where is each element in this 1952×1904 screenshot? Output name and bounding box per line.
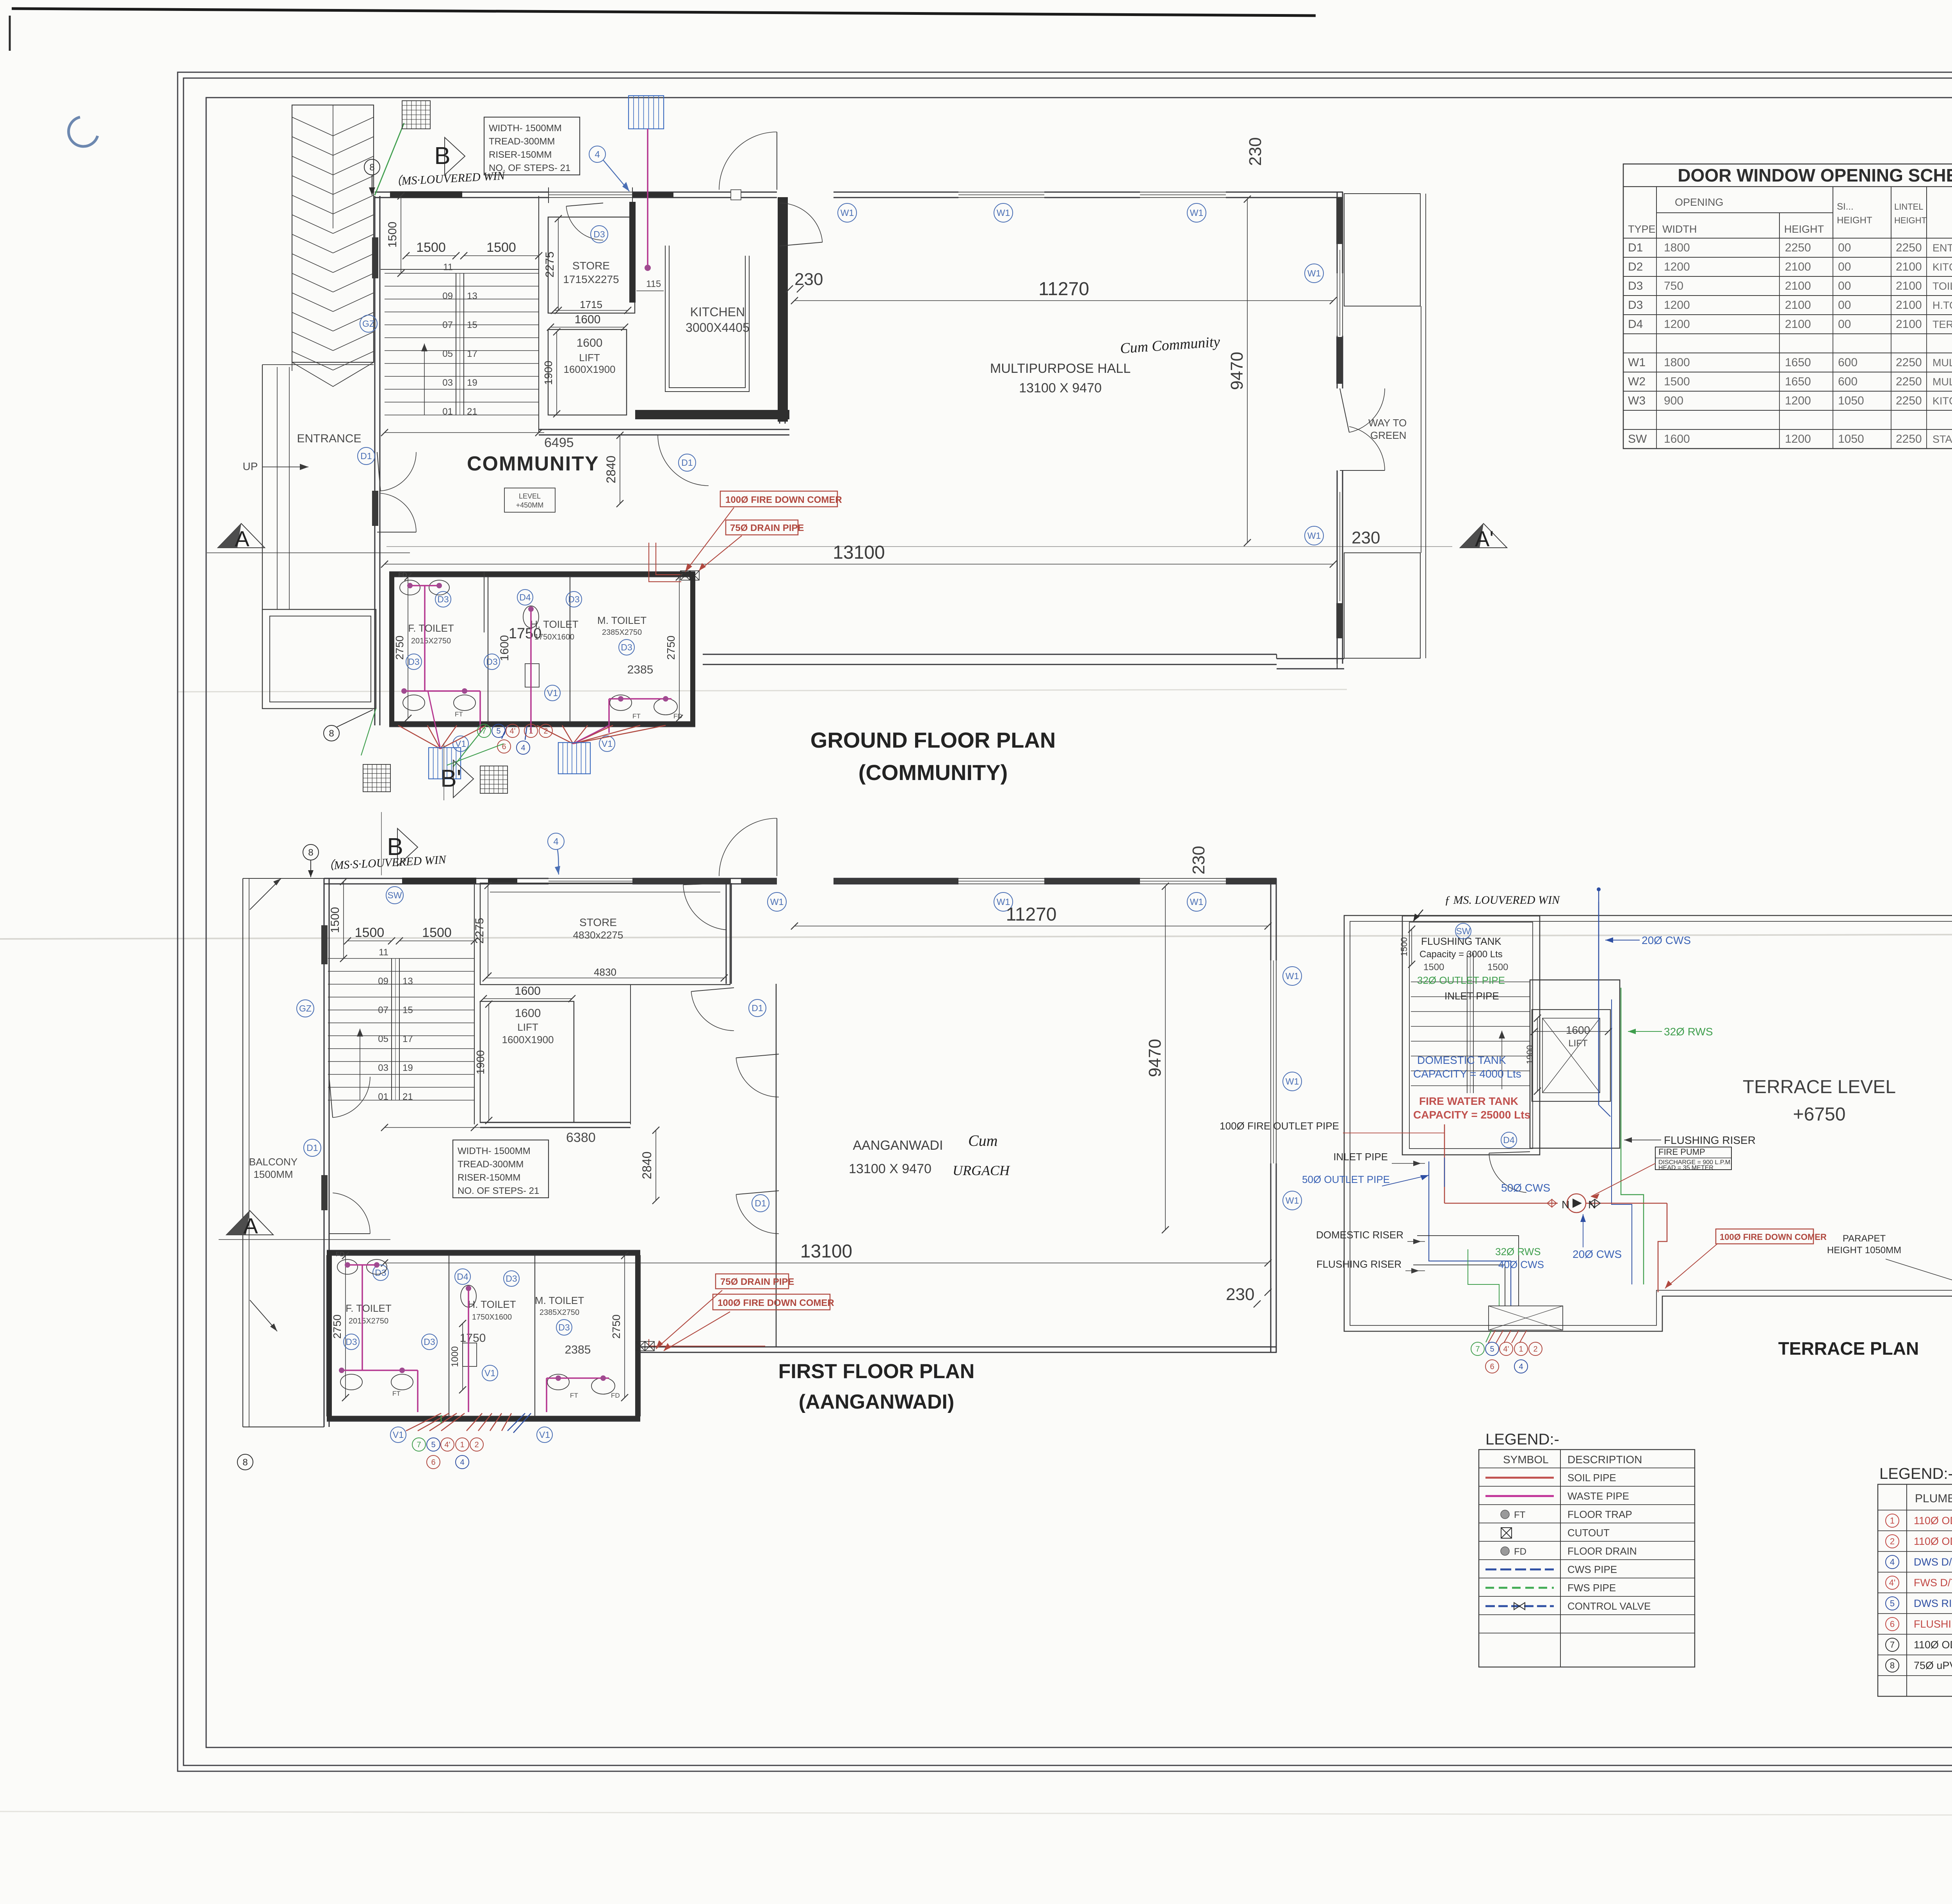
- svg-text:9470: 9470: [1227, 352, 1247, 390]
- svg-text:+450MM: +450MM: [516, 501, 544, 509]
- svg-text:4: 4: [460, 1458, 464, 1467]
- svg-text:1600: 1600: [498, 635, 511, 661]
- svg-text:URGACH: URGACH: [953, 1163, 1010, 1178]
- svg-text:W1: W1: [997, 208, 1010, 218]
- svg-text:(AANGANWADI): (AANGANWADI): [799, 1391, 955, 1413]
- svg-text:13100 X 9470: 13100 X 9470: [849, 1161, 931, 1176]
- svg-text:13100 X 9470: 13100 X 9470: [1019, 381, 1102, 395]
- svg-text:LEGEND:-: LEGEND:-: [1879, 1465, 1952, 1482]
- svg-text:A: A: [235, 526, 249, 551]
- svg-text:FLUSHING RISER: FLUSHING RISER: [1914, 1618, 1952, 1630]
- red fire labels: [720, 491, 837, 507]
- svg-text:D4: D4: [1503, 1135, 1515, 1145]
- svg-text:1500: 1500: [486, 240, 516, 255]
- svg-text:5: 5: [1490, 1345, 1494, 1354]
- svg-text:8: 8: [308, 847, 313, 858]
- blue leader top: [1598, 890, 1599, 902]
- svg-text:1500: 1500: [1487, 962, 1508, 972]
- svg-text:4': 4': [510, 727, 516, 736]
- svg-text:RISER-150MM: RISER-150MM: [458, 1172, 520, 1183]
- svg-text:2: 2: [1890, 1537, 1895, 1546]
- svg-text:1800: 1800: [1664, 356, 1690, 369]
- svg-text:FLUSHING RISER: FLUSHING RISER: [1316, 1258, 1402, 1270]
- svg-text:1200: 1200: [1664, 299, 1690, 312]
- svg-text:750: 750: [1664, 280, 1683, 292]
- svg-text:D4: D4: [457, 1272, 468, 1282]
- content frame: [206, 98, 1952, 1747]
- svg-text:WIDTH: WIDTH: [1662, 223, 1697, 235]
- svg-text:4: 4: [595, 149, 600, 160]
- svg-text:1750: 1750: [460, 1332, 486, 1345]
- svg-text:1750X1600: 1750X1600: [472, 1313, 512, 1322]
- store room: [548, 217, 635, 313]
- svg-text:7: 7: [482, 727, 486, 736]
- svg-text:FD: FD: [398, 571, 407, 579]
- top-left grid box + label 8: [402, 101, 430, 129]
- svg-text:SW: SW: [1456, 926, 1470, 936]
- svg-text:W1: W1: [770, 897, 784, 907]
- svg-text:GZ: GZ: [362, 319, 375, 329]
- svg-text:UP: UP: [243, 460, 258, 472]
- svg-text:03: 03: [442, 378, 453, 388]
- svg-text:11270: 11270: [1038, 279, 1089, 299]
- svg-text:1: 1: [460, 1441, 464, 1449]
- green vent lines: [447, 744, 504, 765]
- svg-text:F. TOILET: F. TOILET: [346, 1302, 392, 1314]
- svg-text:17: 17: [467, 349, 477, 359]
- magenta waste pipes: [410, 585, 439, 586]
- ff lift: [480, 1001, 574, 1122]
- svg-text:FWS D/TAKE: FWS D/TAKE: [1914, 1577, 1952, 1589]
- svg-text:230: 230: [1226, 1285, 1254, 1304]
- svg-text:00: 00: [1838, 299, 1851, 312]
- svg-text:6380: 6380: [566, 1130, 596, 1145]
- stair dims: [401, 196, 401, 273]
- svg-text:2: 2: [1533, 1345, 1537, 1354]
- svg-text:SOIL PIPE: SOIL PIPE: [1567, 1472, 1616, 1484]
- svg-text:BALCONY: BALCONY: [249, 1156, 297, 1168]
- svg-text:FLOOR TRAP: FLOOR TRAP: [1567, 1509, 1632, 1520]
- svg-text:1500: 1500: [1399, 937, 1409, 956]
- svg-text:FD: FD: [611, 1392, 620, 1399]
- svg-text:2250: 2250: [1785, 241, 1811, 254]
- svg-text:1650: 1650: [1785, 356, 1811, 369]
- svg-text:3000X4405: 3000X4405: [686, 321, 750, 335]
- svg-text:SYMBOL: SYMBOL: [1503, 1453, 1549, 1466]
- svg-text:2015X2750: 2015X2750: [349, 1317, 388, 1325]
- svg-text:230: 230: [794, 270, 823, 289]
- svg-text:19: 19: [403, 1063, 413, 1073]
- svg-text:W1: W1: [1286, 1195, 1299, 1206]
- svg-text:TERRACE PLAN: TERRACE PLAN: [1778, 1338, 1919, 1359]
- svg-text:7: 7: [1890, 1640, 1895, 1650]
- svg-text:FT: FT: [570, 1392, 578, 1399]
- svg-text:HEIGHT: HEIGHT: [1784, 223, 1824, 235]
- svg-text:D3: D3: [486, 657, 497, 667]
- circled 4 with leader: [589, 146, 606, 162]
- svg-text:230: 230: [1352, 528, 1380, 547]
- svg-text:D3: D3: [408, 657, 419, 667]
- svg-text:20Ø CWS: 20Ø CWS: [1642, 934, 1691, 946]
- svg-text:FLUSHING RISER: FLUSHING RISER: [1664, 1134, 1756, 1146]
- svg-text:09: 09: [442, 291, 453, 301]
- circled 8 + handwriting ff: [237, 1454, 253, 1470]
- svg-text:FT: FT: [632, 712, 641, 720]
- section marker A-prime: [1460, 524, 1507, 548]
- svg-text:6: 6: [431, 1458, 435, 1467]
- svg-text:7: 7: [417, 1441, 421, 1449]
- svg-text:V1: V1: [484, 1368, 495, 1378]
- svg-text:LINTEL: LINTEL: [1894, 202, 1924, 212]
- stair data box: [484, 117, 580, 175]
- svg-text:D3: D3: [558, 1322, 570, 1332]
- svg-text:2015X2750: 2015X2750: [411, 637, 451, 645]
- svg-text:32Ø RWS: 32Ø RWS: [1495, 1246, 1541, 1257]
- svg-text:100Ø FIRE DOWN COMER: 100Ø FIRE DOWN COMER: [725, 495, 842, 505]
- svg-text:DESCRIPTION: DESCRIPTION: [1567, 1453, 1642, 1466]
- svg-text:DWS RISER: DWS RISER: [1914, 1598, 1952, 1609]
- ff store: [480, 883, 730, 985]
- svg-text:4830: 4830: [594, 966, 616, 978]
- svg-text:1200: 1200: [1664, 260, 1690, 273]
- svg-text:TREAD-300MM: TREAD-300MM: [489, 136, 555, 147]
- svg-text:OPENING: OPENING: [1675, 196, 1724, 208]
- svg-text:TREAD-300MM: TREAD-300MM: [458, 1159, 524, 1170]
- blue hatch box top + magenta drop: [629, 96, 664, 129]
- terrace plan outline (parapet): [1344, 915, 1952, 1331]
- svg-text:600: 600: [1838, 375, 1858, 388]
- svg-text:07: 07: [442, 320, 453, 330]
- terrace lift tower: [1530, 980, 1620, 1148]
- svg-text:ENTRY: ENTRY: [1932, 242, 1952, 254]
- svg-text:LIFT: LIFT: [579, 352, 600, 363]
- svg-text:230: 230: [1246, 137, 1265, 166]
- svg-text:LEVEL: LEVEL: [519, 492, 541, 500]
- svg-text:00: 00: [1838, 318, 1851, 331]
- way to green doors: [1349, 388, 1385, 432]
- svg-text:8: 8: [242, 1457, 248, 1468]
- svg-text:2: 2: [543, 727, 548, 736]
- lift: [548, 330, 627, 415]
- svg-text:TERRACE LEVEL: TERRACE LEVEL: [1743, 1077, 1896, 1097]
- svg-text:GREEN: GREEN: [1370, 429, 1406, 441]
- svg-text:M. TOILET: M. TOILET: [597, 614, 647, 626]
- svg-text:100Ø FIRE OUTLET PIPE: 100Ø FIRE OUTLET PIPE: [1220, 1120, 1339, 1132]
- ff right wall: [1270, 878, 1272, 960]
- svg-text:1500: 1500: [416, 240, 446, 255]
- svg-text:V1: V1: [539, 1430, 550, 1440]
- svg-text:2250: 2250: [1896, 356, 1922, 369]
- svg-text:01: 01: [378, 1092, 388, 1102]
- svg-text:05: 05: [378, 1034, 388, 1044]
- svg-text:D1: D1: [681, 458, 693, 468]
- svg-text:4': 4': [445, 1441, 451, 1449]
- svg-text:SW: SW: [387, 890, 402, 900]
- svg-text:8: 8: [329, 728, 334, 739]
- svg-text:FWS PIPE: FWS PIPE: [1567, 1582, 1616, 1594]
- svg-text:1500: 1500: [329, 907, 342, 933]
- top wall with windows: [375, 192, 549, 193]
- svg-text:D3: D3: [375, 1268, 386, 1278]
- svg-text:LIFT: LIFT: [517, 1021, 538, 1033]
- svg-text:HEIGHT 1050MM: HEIGHT 1050MM: [1827, 1245, 1901, 1256]
- svg-text:TOILET: TOILET: [1932, 280, 1952, 292]
- svg-text:2385: 2385: [627, 663, 654, 676]
- svg-text:AANGANWADI: AANGANWADI: [853, 1138, 943, 1153]
- svg-text:1500: 1500: [386, 222, 399, 248]
- svg-text:2250: 2250: [1896, 433, 1922, 445]
- svg-text:HEAD = 35 METER: HEAD = 35 METER: [1658, 1165, 1713, 1171]
- balcony left strip: [242, 878, 243, 1427]
- svg-text:2250: 2250: [1896, 394, 1922, 407]
- svg-text:1900: 1900: [542, 361, 554, 385]
- svg-text:11270: 11270: [1006, 904, 1057, 925]
- svg-text:11: 11: [443, 262, 453, 273]
- svg-text:WIDTH- 1500MM: WIDTH- 1500MM: [489, 123, 562, 134]
- svg-text:5: 5: [431, 1441, 435, 1449]
- svg-text:D4: D4: [1628, 318, 1643, 331]
- svg-text:D1: D1: [755, 1198, 766, 1208]
- svg-text:5: 5: [1890, 1599, 1895, 1608]
- svg-text:600: 600: [1838, 356, 1858, 369]
- pipe bundle exit box: [1489, 1306, 1563, 1330]
- svg-text:W1: W1: [1628, 356, 1646, 369]
- svg-text:4: 4: [1519, 1363, 1523, 1371]
- svg-text:6: 6: [1490, 1363, 1494, 1371]
- svg-text:LEGEND:-: LEGEND:-: [1485, 1431, 1559, 1448]
- svg-text:2250: 2250: [1896, 375, 1922, 388]
- svg-text:STORE: STORE: [579, 916, 617, 928]
- svg-text:FD: FD: [336, 1250, 345, 1258]
- svg-text:WAY TO: WAY TO: [1368, 417, 1407, 429]
- svg-text:D1: D1: [752, 1003, 763, 1013]
- svg-text:N: N: [1588, 1199, 1596, 1211]
- GZ circle: [360, 315, 377, 332]
- svg-text:A: A: [243, 1213, 258, 1238]
- kitchen U counter: [665, 246, 749, 392]
- terrace circled numbers: [1471, 1342, 1484, 1355]
- svg-text:D3: D3: [506, 1273, 517, 1284]
- svg-text:1600: 1600: [577, 337, 603, 349]
- svg-text:2840: 2840: [604, 456, 618, 483]
- svg-text:15: 15: [467, 320, 477, 330]
- svg-text:A': A': [1475, 526, 1494, 551]
- svg-text:F. TOILET: F. TOILET: [408, 622, 454, 634]
- svg-text:1900: 1900: [1525, 1045, 1535, 1064]
- svg-text:900: 900: [1664, 394, 1683, 407]
- svg-text:D2: D2: [1628, 260, 1643, 273]
- svg-text:WIDTH- 1500MM: WIDTH- 1500MM: [458, 1146, 531, 1156]
- svg-text:13: 13: [403, 976, 413, 987]
- fire down comer red label: [1716, 1229, 1813, 1244]
- svg-text:MULTIPURPOSE HALL: MULTIPURPOSE HALL: [990, 361, 1131, 376]
- svg-text:2750: 2750: [331, 1314, 343, 1339]
- svg-text:(COMMUNITY): (COMMUNITY): [858, 760, 1008, 785]
- svg-text:2100: 2100: [1785, 280, 1811, 292]
- svg-text:1600: 1600: [575, 313, 601, 326]
- svg-text:2750: 2750: [665, 636, 677, 660]
- svg-text:2750: 2750: [610, 1314, 622, 1339]
- door window opening schedule table: [1623, 164, 1952, 449]
- terrace stairs: [1411, 981, 1530, 982]
- ff circled pipe numbers: [412, 1438, 426, 1451]
- ff left wall: [324, 878, 325, 1427]
- svg-text:1500: 1500: [1423, 962, 1444, 972]
- svg-text:1750: 1750: [509, 625, 542, 642]
- svg-text:50Ø OUTLET PIPE: 50Ø OUTLET PIPE: [1302, 1174, 1390, 1185]
- svg-text:4': 4': [1889, 1578, 1895, 1588]
- svg-text:M. TOILET: M. TOILET: [535, 1295, 584, 1306]
- svg-text:PARAPET: PARAPET: [1843, 1233, 1886, 1244]
- svg-text:TYPE: TYPE: [1628, 223, 1656, 235]
- svg-text:6: 6: [1890, 1619, 1895, 1629]
- svg-text:4': 4': [1503, 1345, 1509, 1354]
- svg-text:07: 07: [378, 1005, 388, 1015]
- svg-text:8: 8: [1890, 1661, 1895, 1671]
- fire pump spec box: [1655, 1147, 1731, 1170]
- svg-text:D3: D3: [1628, 280, 1643, 292]
- svg-text:PLUMBING LEGEND: PLUMBING LEGEND: [1915, 1492, 1952, 1505]
- svg-text:2100: 2100: [1896, 299, 1922, 312]
- svg-text:FT: FT: [392, 1390, 401, 1397]
- svg-text:4: 4: [521, 744, 525, 752]
- svg-text:KITCHEN: KITCHEN: [690, 305, 745, 319]
- svg-text:W1: W1: [1286, 1076, 1299, 1086]
- svg-text:1500MM: 1500MM: [253, 1168, 293, 1180]
- svg-text:DOMESTIC TANK: DOMESTIC TANK: [1417, 1054, 1506, 1066]
- svg-text:W2: W2: [1628, 375, 1646, 388]
- svg-text:100Ø FIRE DOWN COMER: 100Ø FIRE DOWN COMER: [718, 1298, 834, 1308]
- svg-text:HEIGHT: HEIGHT: [1894, 216, 1927, 225]
- svg-text:4: 4: [553, 836, 558, 847]
- ff toilets: [327, 1250, 640, 1251]
- svg-text:CWS PIPE: CWS PIPE: [1567, 1564, 1617, 1575]
- circled pipe numbers: [477, 724, 491, 737]
- svg-text:CAPACITY = 4000 Lts: CAPACITY = 4000 Lts: [1413, 1068, 1521, 1080]
- svg-text:1200: 1200: [1785, 433, 1811, 445]
- svg-text:19: 19: [467, 378, 477, 388]
- svg-text:110Ø OD uPVC R.W.P: 110Ø OD uPVC R.W.P: [1914, 1639, 1952, 1651]
- ff inner wall right of lift: [726, 883, 727, 984]
- B marker ff top: [548, 833, 564, 850]
- svg-text:2100: 2100: [1896, 260, 1922, 273]
- svg-text:CONTROL VALVE: CONTROL VALVE: [1567, 1600, 1651, 1612]
- svg-text:D3: D3: [1628, 299, 1643, 312]
- svg-text:FT: FT: [1514, 1510, 1526, 1520]
- svg-text:13100: 13100: [800, 1241, 852, 1262]
- svg-text:LIFT: LIFT: [1568, 1038, 1588, 1049]
- svg-text:1800: 1800: [1664, 241, 1690, 254]
- red drain outline near hall: [649, 543, 681, 582]
- svg-text:2100: 2100: [1785, 260, 1811, 273]
- scan artifacts top edge: [12, 9, 1316, 16]
- svg-text:6495: 6495: [544, 435, 574, 450]
- svg-text:V1: V1: [547, 688, 558, 698]
- svg-text:D3: D3: [593, 229, 605, 239]
- svg-text:8: 8: [369, 162, 374, 173]
- svg-text:2100: 2100: [1785, 318, 1811, 331]
- svg-text:DOOR WINDOW OPENING SCHEDULE: DOOR WINDOW OPENING SCHEDULE: [1678, 165, 1952, 185]
- svg-text:2250: 2250: [1896, 241, 1922, 254]
- blue/green risers bottom left of terrace: [1429, 1158, 1511, 1306]
- svg-text:00: 00: [1838, 241, 1851, 254]
- svg-text:2385X2750: 2385X2750: [540, 1308, 579, 1317]
- section A line across: [386, 546, 1452, 547]
- svg-text:1900: 1900: [474, 1050, 486, 1074]
- svg-text:RISER-150MM: RISER-150MM: [489, 150, 552, 160]
- svg-text:2385: 2385: [565, 1343, 591, 1356]
- svg-text:1715X2275: 1715X2275: [563, 273, 619, 285]
- svg-text:COMMUNITY: COMMUNITY: [467, 452, 599, 475]
- svg-text:+6750: +6750: [1793, 1104, 1846, 1125]
- svg-text:05: 05: [442, 349, 453, 359]
- svg-text:STAIRCASE: STAIRCASE: [1932, 433, 1952, 445]
- svg-text:INLET PIPE: INLET PIPE: [1444, 990, 1499, 1002]
- svg-text:DOMESTIC RISER: DOMESTIC RISER: [1316, 1229, 1403, 1241]
- fold lines: [0, 933, 1952, 939]
- entrance canopy chevron strip: [292, 105, 374, 362]
- svg-text:FT: FT: [455, 711, 463, 718]
- svg-text:115: 115: [646, 279, 661, 289]
- svg-text:32Ø OUTLET PIPE: 32Ø OUTLET PIPE: [1417, 974, 1505, 986]
- svg-text:2275: 2275: [543, 251, 556, 278]
- svg-text:FIRE PUMP: FIRE PUMP: [1658, 1147, 1705, 1157]
- svg-text:D3: D3: [346, 1337, 357, 1347]
- terrace pipe runs: [1598, 902, 1599, 1105]
- svg-text:HEIGHT: HEIGHT: [1837, 215, 1872, 226]
- svg-text:H. TOILET: H. TOILET: [468, 1298, 516, 1310]
- svg-text:Cum: Cum: [968, 1132, 998, 1149]
- tank room door: [1489, 1153, 1526, 1193]
- svg-text:1200: 1200: [1785, 394, 1811, 407]
- svg-text:1500: 1500: [1664, 375, 1690, 388]
- svg-text:50Ø CWS: 50Ø CWS: [1501, 1182, 1550, 1194]
- svg-text:1: 1: [529, 727, 533, 736]
- svg-text:CUTOUT: CUTOUT: [1567, 1527, 1610, 1539]
- svg-text:V1: V1: [602, 739, 613, 749]
- pipe risers fan to tanks: [398, 725, 440, 749]
- svg-text:09: 09: [378, 976, 388, 987]
- svg-text:D3: D3: [437, 594, 449, 604]
- toilets block ground floor: [389, 572, 695, 573]
- svg-text:15: 15: [403, 1005, 413, 1015]
- svg-text:ƒ MS. LOUVERED WIN: ƒ MS. LOUVERED WIN: [1444, 894, 1560, 907]
- svg-text:STORE: STORE: [572, 260, 610, 272]
- way to green corridor: [1344, 194, 1420, 306]
- svg-text:MULTI-PURPOSE HALL: MULTI-PURPOSE HALL: [1932, 357, 1952, 369]
- svg-text:5: 5: [496, 727, 500, 736]
- svg-text:01: 01: [442, 406, 453, 417]
- fire pump red line: [1444, 1124, 1445, 1203]
- svg-text:2100: 2100: [1896, 280, 1922, 292]
- ff stair data box: [453, 1140, 549, 1198]
- section A marker: [218, 524, 265, 548]
- svg-text:1600: 1600: [1566, 1024, 1590, 1036]
- svg-text:110Ø OD uPVC WP STACK: 110Ø OD uPVC WP STACK: [1914, 1535, 1952, 1547]
- svg-text:7: 7: [1475, 1345, 1480, 1354]
- svg-text:1600: 1600: [515, 985, 541, 997]
- stairs: [538, 196, 539, 433]
- svg-text:DWS D/TAKE: DWS D/TAKE: [1914, 1556, 1952, 1568]
- section A marker ff: [226, 1211, 273, 1235]
- svg-text:2: 2: [474, 1441, 479, 1449]
- svg-text:13: 13: [467, 291, 477, 301]
- svg-text:1: 1: [1890, 1516, 1895, 1526]
- svg-text:FLUSHING TANK: FLUSHING TANK: [1421, 935, 1501, 947]
- svg-text:1715: 1715: [580, 299, 602, 310]
- svg-text:2100: 2100: [1785, 299, 1811, 312]
- svg-text:4: 4: [1890, 1557, 1895, 1567]
